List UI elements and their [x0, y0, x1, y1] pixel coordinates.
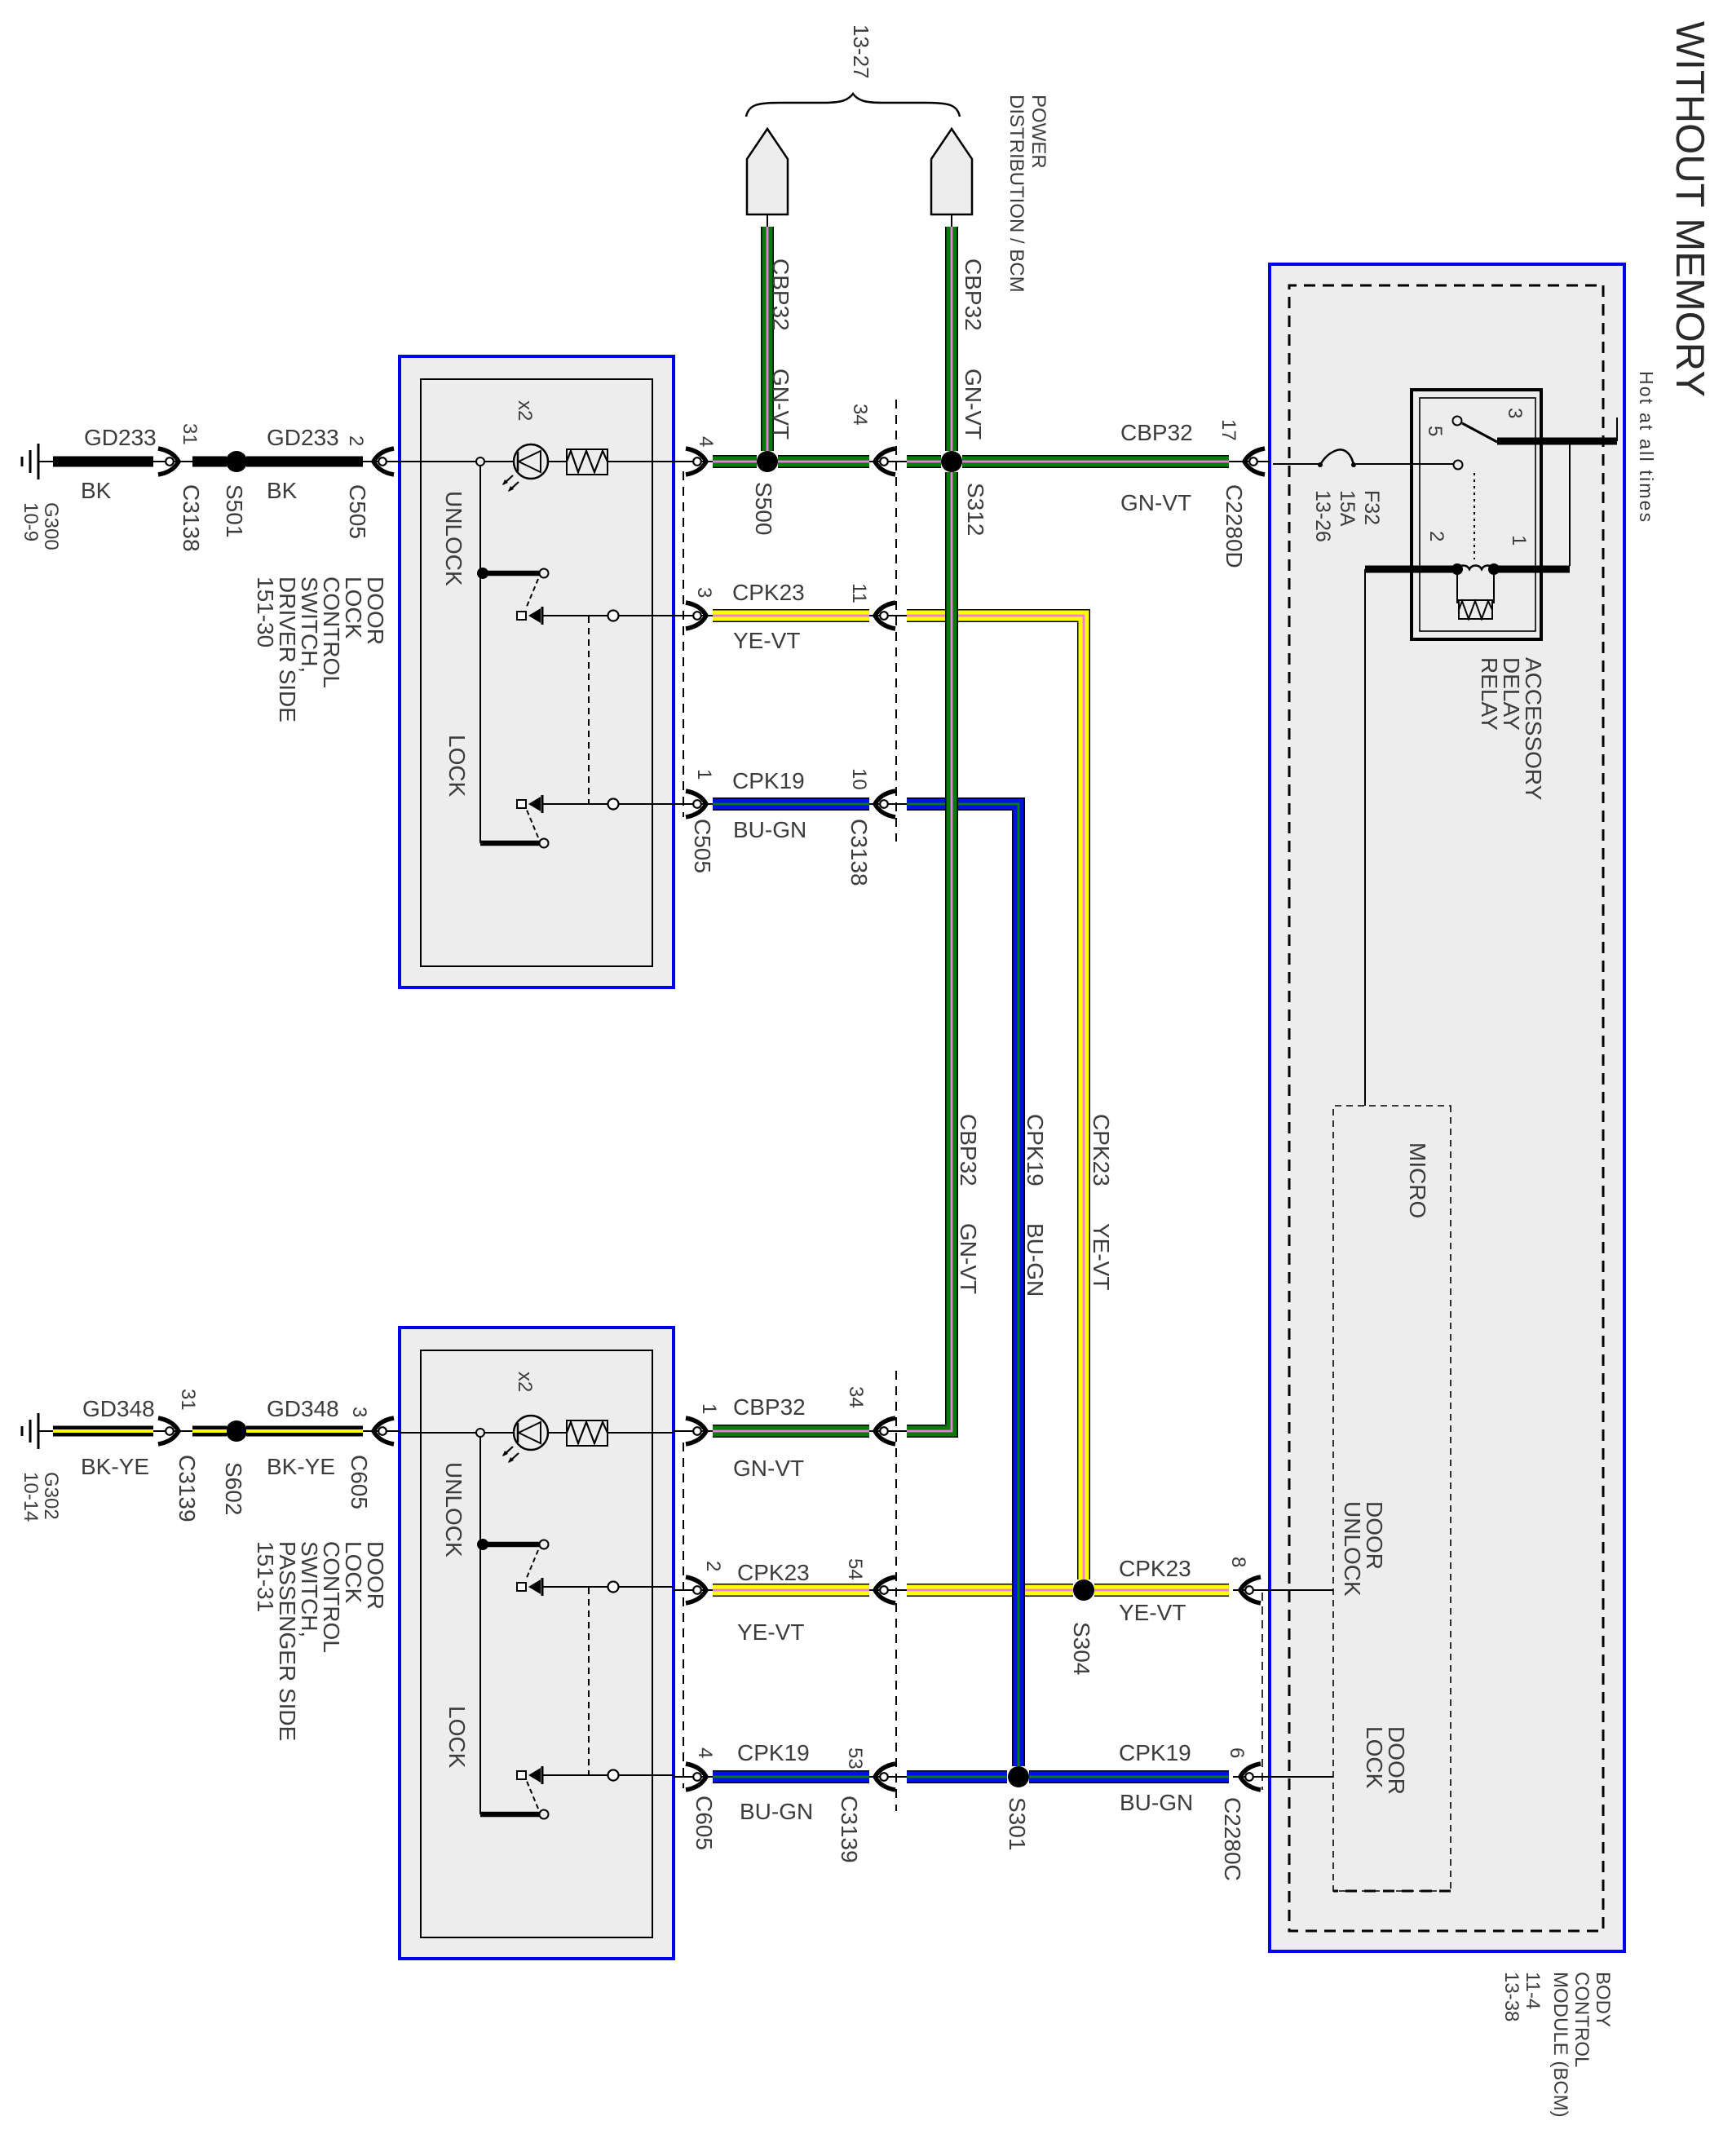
- svg-text:Hot at all times: Hot at all times: [1636, 371, 1657, 524]
- svg-text:DELAY: DELAY: [1499, 657, 1524, 731]
- svg-text:LOCK: LOCK: [1362, 1726, 1387, 1789]
- svg-text:DOOR: DOOR: [363, 1541, 388, 1610]
- svg-text:CONTROL: CONTROL: [1571, 1972, 1593, 2067]
- svg-text:LOCK: LOCK: [341, 1541, 366, 1604]
- svg-text:YE-VT: YE-VT: [737, 1619, 804, 1645]
- svg-text:G302: G302: [40, 1472, 62, 1520]
- svg-text:C3139: C3139: [175, 1455, 200, 1522]
- svg-text:CPK23: CPK23: [1119, 1556, 1191, 1581]
- svg-text:S304: S304: [1069, 1622, 1094, 1675]
- svg-text:MODULE (BCM): MODULE (BCM): [1549, 1972, 1571, 2118]
- svg-text:x2: x2: [514, 400, 536, 421]
- svg-text:DRIVER SIDE: DRIVER SIDE: [275, 577, 300, 722]
- svg-text:1: 1: [1508, 535, 1530, 546]
- svg-text:11-4: 11-4: [1522, 1972, 1544, 2009]
- svg-text:S501: S501: [222, 484, 247, 537]
- svg-text:ACCESSORY: ACCESSORY: [1521, 657, 1546, 801]
- svg-text:DOOR: DOOR: [1362, 1501, 1387, 1570]
- svg-text:11: 11: [848, 583, 870, 603]
- svg-text:BU-GN: BU-GN: [733, 817, 806, 842]
- svg-text:G300: G300: [40, 502, 62, 550]
- svg-text:RELAY: RELAY: [1477, 657, 1502, 731]
- svg-text:CONTROL: CONTROL: [319, 1541, 344, 1653]
- svg-text:WITHOUT MEMORY: WITHOUT MEMORY: [1668, 21, 1712, 397]
- svg-text:CBP32: CBP32: [956, 1114, 981, 1186]
- svg-text:F32: F32: [1360, 490, 1383, 525]
- svg-text:15A: 15A: [1336, 490, 1359, 527]
- svg-text:CPK19: CPK19: [737, 1740, 810, 1765]
- svg-text:CPK23: CPK23: [737, 1560, 810, 1585]
- svg-text:3: 3: [693, 587, 715, 598]
- svg-text:x2: x2: [514, 1372, 536, 1392]
- svg-text:LOCK: LOCK: [341, 577, 366, 639]
- svg-text:10-14: 10-14: [20, 1472, 42, 1522]
- svg-text:BK: BK: [267, 478, 298, 503]
- svg-text:C605: C605: [691, 1796, 717, 1850]
- svg-text:DISTRIBUTION / BCM: DISTRIBUTION / BCM: [1005, 95, 1027, 293]
- svg-text:CPK19: CPK19: [732, 768, 805, 793]
- svg-text:4: 4: [695, 436, 717, 447]
- svg-text:SWITCH,: SWITCH,: [297, 577, 322, 673]
- svg-text:3: 3: [348, 1407, 370, 1417]
- svg-text:CBP32: CBP32: [733, 1394, 806, 1420]
- svg-text:MICRO: MICRO: [1405, 1142, 1430, 1218]
- svg-text:GN-VT: GN-VT: [768, 369, 793, 440]
- svg-text:2: 2: [1425, 531, 1447, 541]
- svg-text:BK-YE: BK-YE: [267, 1454, 335, 1479]
- svg-text:SWITCH,: SWITCH,: [297, 1541, 322, 1637]
- svg-text:UNLOCK: UNLOCK: [1340, 1501, 1365, 1597]
- svg-text:BK: BK: [81, 478, 112, 503]
- svg-text:S500: S500: [751, 482, 776, 535]
- svg-text:C505: C505: [345, 484, 370, 539]
- svg-text:GN-VT: GN-VT: [961, 369, 986, 440]
- svg-text:UNLOCK: UNLOCK: [441, 1462, 466, 1557]
- svg-text:6: 6: [1226, 1747, 1248, 1758]
- svg-text:DOOR: DOOR: [363, 577, 388, 645]
- svg-text:C605: C605: [347, 1455, 372, 1509]
- svg-text:GN-VT: GN-VT: [733, 1456, 804, 1481]
- svg-text:CONTROL: CONTROL: [319, 577, 344, 688]
- svg-text:C3138: C3138: [179, 484, 204, 552]
- svg-text:YE-VT: YE-VT: [733, 628, 800, 653]
- svg-text:DOOR: DOOR: [1384, 1726, 1409, 1795]
- svg-text:13-27: 13-27: [849, 24, 873, 79]
- svg-text:2: 2: [345, 435, 367, 446]
- svg-text:5: 5: [1424, 426, 1446, 436]
- svg-text:13-38: 13-38: [1500, 1972, 1522, 2021]
- svg-text:CBP32: CBP32: [961, 258, 986, 331]
- svg-text:54: 54: [844, 1558, 866, 1580]
- svg-text:GD348: GD348: [82, 1396, 155, 1421]
- svg-text:BU-GN: BU-GN: [1120, 1790, 1193, 1815]
- svg-text:BODY: BODY: [1592, 1972, 1614, 2027]
- svg-text:C3138: C3138: [846, 819, 872, 886]
- svg-text:151-31: 151-31: [253, 1541, 278, 1612]
- svg-text:YE-VT: YE-VT: [1119, 1600, 1186, 1625]
- svg-text:1: 1: [693, 769, 715, 780]
- svg-text:LOCK: LOCK: [444, 735, 470, 797]
- svg-text:LOCK: LOCK: [444, 1706, 470, 1769]
- svg-text:PASSENGER SIDE: PASSENGER SIDE: [275, 1541, 300, 1741]
- svg-text:GD233: GD233: [267, 425, 339, 450]
- svg-text:34: 34: [849, 404, 871, 426]
- svg-text:BU-GN: BU-GN: [740, 1799, 813, 1824]
- svg-text:S301: S301: [1005, 1797, 1030, 1850]
- svg-text:4: 4: [694, 1747, 716, 1758]
- svg-text:13-26: 13-26: [1311, 490, 1334, 542]
- svg-text:C2280C: C2280C: [1220, 1797, 1245, 1881]
- svg-text:BU-GN: BU-GN: [1023, 1223, 1048, 1297]
- svg-text:S602: S602: [221, 1462, 246, 1515]
- svg-text:151-30: 151-30: [253, 577, 278, 647]
- svg-text:C505: C505: [690, 819, 715, 873]
- svg-text:CBP32: CBP32: [768, 258, 793, 331]
- svg-text:17: 17: [1217, 419, 1239, 441]
- svg-text:C2280D: C2280D: [1222, 484, 1247, 568]
- svg-text:S312: S312: [963, 483, 988, 536]
- svg-text:8: 8: [1227, 1557, 1249, 1567]
- svg-text:GN-VT: GN-VT: [1120, 490, 1191, 515]
- svg-text:CPK19: CPK19: [1119, 1740, 1191, 1765]
- svg-text:C3139: C3139: [837, 1796, 862, 1863]
- svg-text:GD233: GD233: [84, 425, 157, 450]
- svg-text:10: 10: [848, 768, 870, 790]
- svg-text:UNLOCK: UNLOCK: [441, 491, 466, 586]
- svg-text:34: 34: [845, 1386, 867, 1408]
- svg-text:CBP32: CBP32: [1120, 420, 1193, 445]
- svg-text:31: 31: [179, 423, 201, 445]
- svg-text:31: 31: [177, 1389, 199, 1411]
- svg-text:53: 53: [844, 1747, 866, 1769]
- svg-text:GN-VT: GN-VT: [956, 1223, 981, 1294]
- svg-text:BK-YE: BK-YE: [81, 1454, 149, 1479]
- svg-text:3: 3: [1504, 408, 1526, 418]
- svg-text:CPK19: CPK19: [1023, 1114, 1048, 1186]
- svg-text:2: 2: [702, 1561, 724, 1571]
- svg-text:CPK23: CPK23: [1089, 1114, 1114, 1186]
- svg-text:POWER: POWER: [1027, 95, 1049, 169]
- svg-text:YE-VT: YE-VT: [1089, 1223, 1114, 1290]
- svg-text:10-9: 10-9: [20, 502, 42, 541]
- svg-text:1: 1: [698, 1403, 720, 1414]
- svg-text:GD348: GD348: [267, 1396, 339, 1421]
- svg-text:CPK23: CPK23: [732, 580, 805, 605]
